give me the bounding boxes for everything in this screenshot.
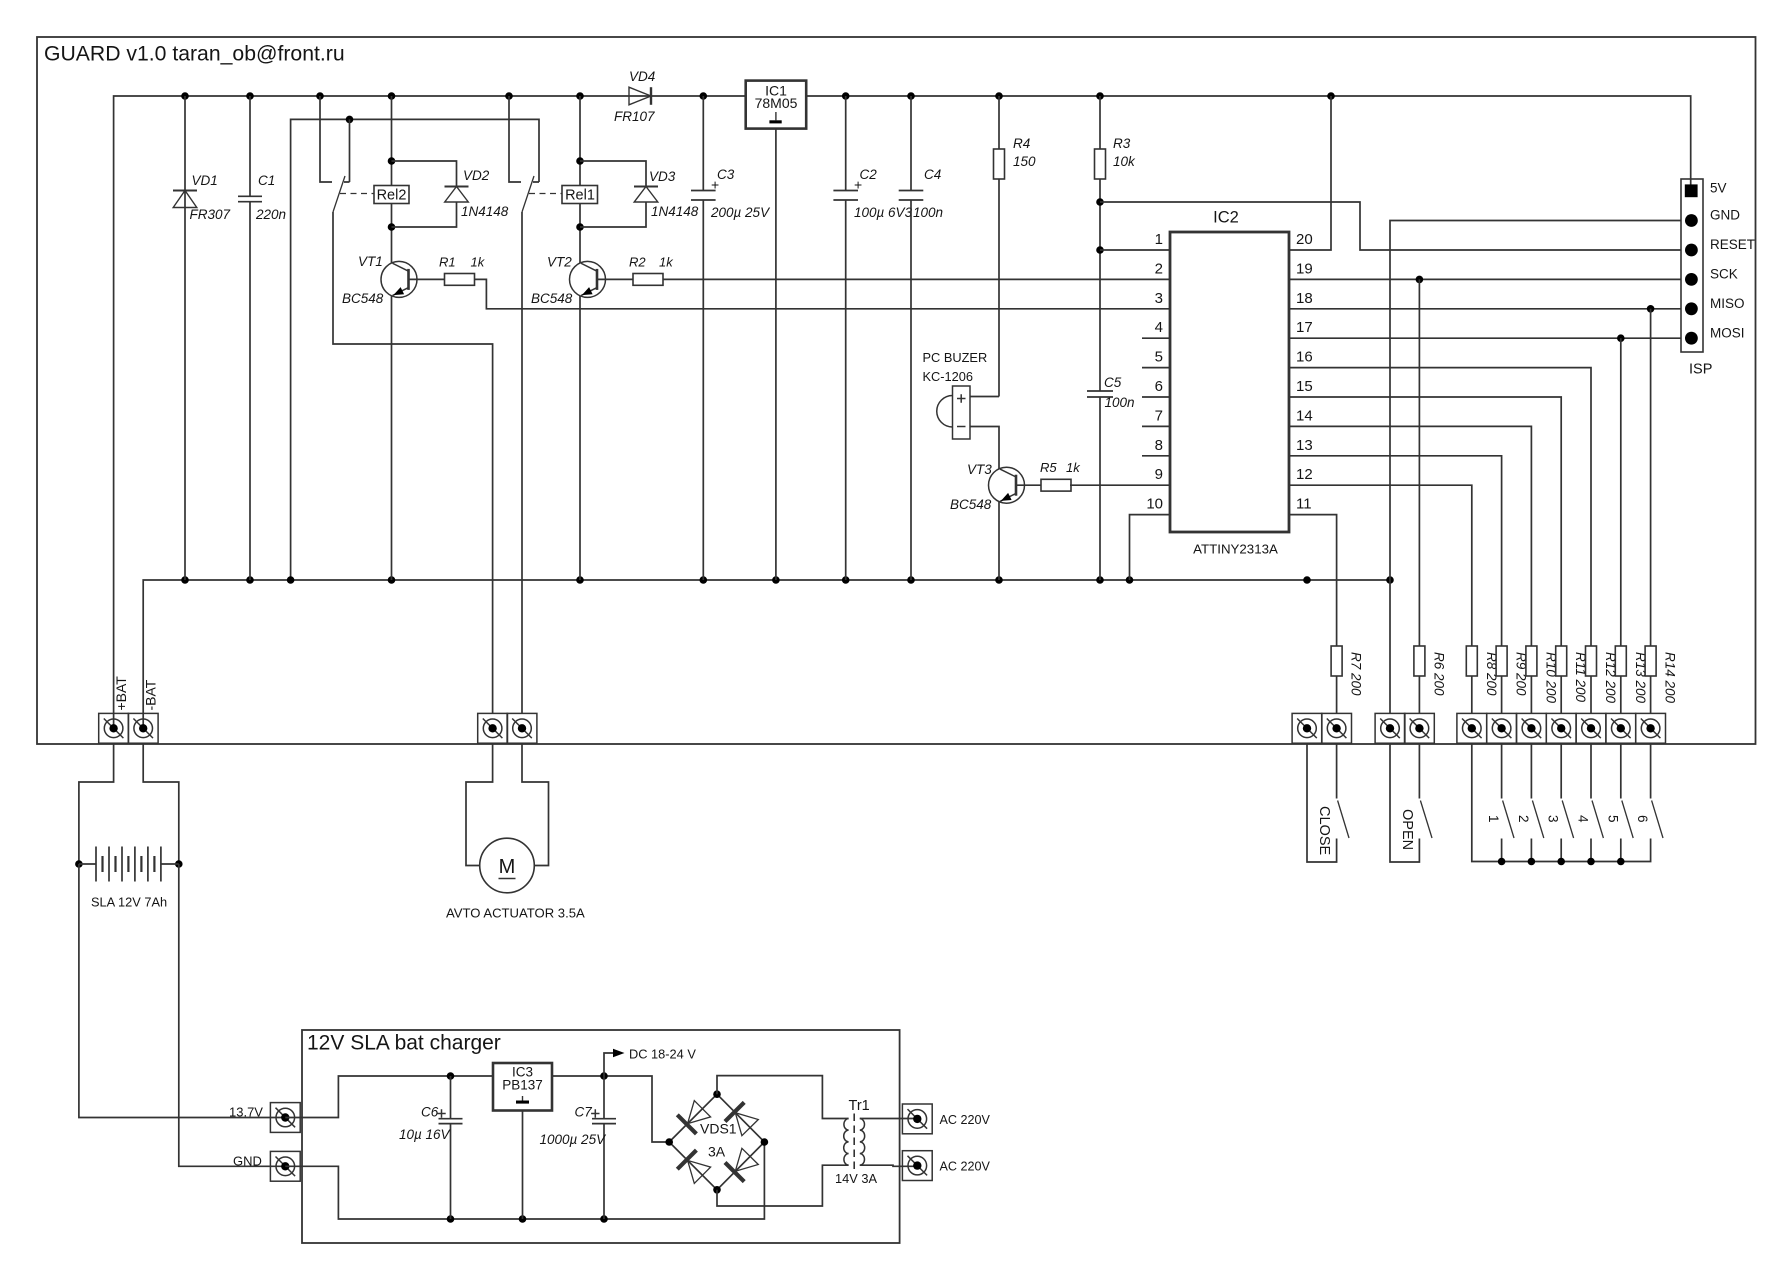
terminal x=1471.8: [1457, 713, 1487, 743]
switch 3: [1560, 743, 1562, 798]
svg-text:13.7V: 13.7V: [229, 1105, 263, 1120]
svg-text:12: 12: [1296, 466, 1313, 483]
wire +BAT to battery: [79, 743, 114, 864]
terminal x=1336.6: [1322, 713, 1352, 743]
capacitor C4: [910, 96, 912, 191]
node IC3 bottom: [519, 1215, 527, 1223]
wire buzzer minus to VT3: [970, 427, 999, 469]
wire R5 to IC2 pin9: [1070, 484, 1170, 486]
node ground rail x=580: [576, 576, 584, 584]
svg-text:C5: C5: [1104, 375, 1122, 390]
svg-text:VT2: VT2: [547, 255, 572, 270]
svg-text:10: 10: [1146, 496, 1163, 513]
wire VT2 emitter: [579, 296, 581, 580]
node Rel1 top: [576, 157, 584, 165]
wire RESET to ISP: [1100, 202, 1681, 250]
node top rail x=580: [576, 92, 584, 100]
svg-text:AC 220V: AC 220V: [940, 1113, 991, 1127]
terminal x=522: [507, 713, 537, 743]
bridge diode top-left: [677, 1115, 696, 1134]
capacitor C1: [249, 96, 251, 196]
diode VD4: [629, 87, 651, 105]
wire VT3 emitter: [998, 502, 1000, 580]
svg-text:C4: C4: [924, 167, 941, 182]
svg-text:GUARD v1.0 taran_ob@front.ru: GUARD v1.0 taran_ob@front.ru: [44, 43, 345, 66]
svg-text:1k: 1k: [659, 255, 674, 270]
node bridge bottom: [713, 1186, 721, 1194]
wire inner +12V rail: [291, 119, 539, 580]
svg-text:100n: 100n: [913, 205, 943, 220]
svg-text:R4: R4: [1013, 136, 1030, 151]
regulator IC3 PB137: [493, 1063, 552, 1111]
wire pin 11 to R7: [1289, 515, 1337, 646]
node top rail x=185: [181, 92, 189, 100]
wire ISP GND: [1390, 221, 1681, 714]
svg-text:VD3: VD3: [649, 169, 676, 184]
wire to IC2 pin1: [1100, 249, 1170, 251]
terminal AC2: [902, 1151, 932, 1181]
node ground rail x=290.6: [287, 576, 295, 584]
node top rail x=999: [995, 92, 1003, 100]
svg-text:BC548: BC548: [950, 497, 992, 512]
node pin1: [1096, 246, 1104, 254]
resistor R6: [1418, 279, 1420, 646]
wire pin 13 to R9: [1289, 456, 1502, 646]
svg-text:1: 1: [1486, 815, 1501, 823]
node battery -: [175, 860, 183, 868]
wire bridge AC bottom: [717, 1165, 849, 1206]
switch 5: [1620, 743, 1622, 798]
wire pin 6 stub: [1142, 396, 1170, 398]
node ground rail x=185: [181, 576, 189, 584]
svg-text:3A: 3A: [708, 1144, 726, 1160]
transistor VT3: [989, 467, 1025, 503]
svg-text:7: 7: [1155, 407, 1163, 424]
resistor R5: [1016, 484, 1041, 486]
resistor R12: [1586, 646, 1597, 676]
svg-text:VT1: VT1: [358, 254, 383, 269]
node R3/reset: [1096, 198, 1104, 206]
terminal x=1419.4: [1405, 713, 1435, 743]
switch OPEN: [1390, 743, 1419, 862]
svg-text:12V SLA bat charger: 12V SLA bat charger: [307, 1032, 501, 1055]
resistor R2: [597, 278, 633, 280]
svg-text:RESET: RESET: [1710, 237, 1755, 252]
wire pin 5 stub: [1142, 367, 1170, 369]
svg-text:5: 5: [1605, 815, 1620, 823]
switch 2: [1530, 743, 1532, 798]
resistor R8: [1466, 646, 1477, 676]
svg-text:C1: C1: [258, 173, 275, 188]
svg-text:14V 3A: 14V 3A: [835, 1171, 877, 1186]
node ground rail x=1307: [1303, 576, 1311, 584]
resistor R14: [1650, 309, 1652, 646]
terminal GND: [270, 1151, 300, 1181]
switch 4: [1590, 743, 1592, 798]
terminal x=1501.6: [1487, 713, 1517, 743]
node ground rail x=775.9: [772, 576, 780, 584]
wire pin 16 to R12: [1289, 368, 1591, 646]
node top rail x=845.7: [842, 92, 850, 100]
wire primary to AC2: [860, 1165, 918, 1166]
terminal x=113.6: [99, 713, 129, 743]
wire VT1 emitter: [391, 296, 393, 580]
svg-text:R7 200: R7 200: [1349, 652, 1364, 696]
resistor R9: [1496, 646, 1507, 676]
svg-text:100µ 6V3: 100µ 6V3: [854, 205, 913, 220]
node C7 bottom: [600, 1215, 608, 1223]
wire battery + to charger: [79, 864, 285, 1118]
svg-text:20: 20: [1296, 231, 1313, 248]
wire IC3 ground: [522, 1111, 524, 1220]
wire pin 17 / MOSI: [1289, 337, 1681, 339]
svg-text:10µ 16V: 10µ 16V: [399, 1127, 452, 1142]
node C6 bottom: [447, 1215, 455, 1223]
terminal AC1: [902, 1104, 932, 1134]
svg-text:1N4148: 1N4148: [461, 204, 509, 219]
node top rail x=320: [316, 92, 324, 100]
svg-text:1k: 1k: [1066, 460, 1081, 475]
capacitor C5: [1087, 390, 1113, 392]
node Rel1 bottom: [576, 223, 584, 231]
regulator IC1 78M05: [746, 81, 807, 129]
switch CLOSE: [1307, 743, 1337, 862]
svg-text:2: 2: [1155, 260, 1163, 277]
wire pin 7 stub: [1142, 425, 1170, 427]
node ground rail x=250: [246, 576, 254, 584]
wire +12V top rail: [114, 96, 1691, 728]
svg-text:11: 11: [1296, 496, 1312, 513]
wire pin 15 to R11: [1289, 397, 1561, 646]
switch 6: [1650, 743, 1652, 798]
svg-text:C6: C6: [421, 1104, 439, 1119]
node top rail x=250: [246, 92, 254, 100]
svg-text:Rel2: Rel2: [377, 188, 407, 204]
wire switch common bus: [1472, 743, 1651, 861]
svg-text:CLOSE: CLOSE: [1316, 806, 1332, 855]
node SCK branch: [1416, 276, 1424, 284]
svg-text:15: 15: [1296, 378, 1313, 395]
wire pin 8 stub: [1142, 455, 1170, 457]
diode VD3: [580, 161, 646, 187]
svg-text:GND: GND: [1710, 208, 1740, 223]
wire pin 19 / SCK: [1289, 278, 1681, 280]
node top rail x=509: [505, 92, 513, 100]
dashed link K2 to Rel2 coil: [340, 193, 374, 195]
wire IC1 ground: [775, 129, 777, 580]
svg-text:10k: 10k: [1113, 154, 1136, 169]
terminal x=1390: [1375, 713, 1405, 743]
transformer Tr1 secondary winding: [844, 1119, 849, 1166]
wire pin 10 to ground: [1130, 515, 1171, 580]
resistor R10: [1526, 646, 1537, 676]
node ground rail x=1390: [1386, 576, 1394, 584]
svg-text:GND: GND: [233, 1154, 262, 1169]
svg-text:Tr1: Tr1: [849, 1098, 870, 1114]
svg-text:+BAT: +BAT: [113, 676, 129, 711]
node top rail x=391.5: [388, 92, 396, 100]
node top rail x=703.3: [700, 92, 708, 100]
svg-text:Rel1: Rel1: [565, 188, 595, 204]
relay coil Rel2: [391, 96, 393, 186]
wire pin 20 to rail: [1289, 96, 1331, 250]
bridge rectifier VDS1 diamond: [669, 1094, 764, 1190]
svg-text:VT3: VT3: [967, 462, 992, 477]
node top rail x=1100: [1096, 92, 1104, 100]
wire buzzer plus: [970, 396, 999, 398]
node bridge right: [761, 1138, 769, 1146]
resistor R7: [1331, 646, 1342, 676]
svg-text:MOSI: MOSI: [1710, 326, 1745, 341]
capacitor C6: [450, 1076, 452, 1119]
terminal x=1561.2: [1546, 713, 1576, 743]
node ground rail x=1100: [1096, 576, 1104, 584]
terminal x=1591: [1576, 713, 1606, 743]
svg-text:R1: R1: [439, 255, 456, 270]
bridge diode top-right: [725, 1102, 744, 1121]
terminal x=1650.6: [1636, 713, 1666, 743]
relay contact K1 blade: [522, 176, 534, 212]
svg-text:C3: C3: [717, 167, 735, 182]
wire -BAT to battery: [143, 743, 179, 864]
svg-text:150: 150: [1013, 154, 1036, 169]
svg-text:FR107: FR107: [614, 109, 655, 124]
svg-text:3: 3: [1546, 815, 1561, 823]
terminal x=492.6: [478, 713, 508, 743]
svg-text:IC2: IC2: [1213, 209, 1239, 227]
svg-text:200µ 25V: 200µ 25V: [710, 205, 771, 220]
svg-text:6: 6: [1635, 815, 1650, 823]
capacitor C2: [845, 96, 847, 191]
capacitor C7: [603, 1076, 605, 1119]
svg-text:PC BUZER: PC BUZER: [923, 350, 988, 365]
svg-text:5V: 5V: [1710, 181, 1727, 196]
resistor R3: [1099, 96, 1101, 149]
svg-text:FR307: FR307: [190, 207, 231, 222]
wire actuator right: [522, 743, 549, 865]
svg-text:2: 2: [1516, 815, 1531, 823]
node ground rail x=391.5: [388, 576, 396, 584]
svg-text:MISO: MISO: [1710, 296, 1745, 311]
node battery +: [75, 860, 83, 868]
svg-text:OPEN: OPEN: [1399, 809, 1415, 850]
resistor R4: [998, 96, 1000, 149]
svg-text:R14 200: R14 200: [1663, 652, 1678, 704]
transformer Tr1 primary winding: [860, 1119, 865, 1166]
svg-text:R2: R2: [629, 255, 646, 270]
buzzer BZ1: [953, 386, 971, 439]
transistor VT2: [570, 261, 606, 297]
battery GB1 SLA: [79, 863, 96, 865]
resistor R13: [1620, 338, 1622, 646]
node MISO branch: [1647, 305, 1655, 313]
svg-text:5: 5: [1155, 349, 1163, 366]
svg-text:16: 16: [1296, 349, 1313, 366]
svg-text:PB137: PB137: [502, 1078, 543, 1093]
relay contact K2 fixed terminals: [320, 96, 332, 182]
svg-text:VD2: VD2: [463, 168, 490, 183]
arrow DC output: [604, 1053, 613, 1076]
resistor R1: [409, 278, 445, 280]
wire actuator left: [466, 743, 493, 865]
svg-text:ATTINY2313A: ATTINY2313A: [1193, 542, 1278, 557]
svg-text:ISP: ISP: [1689, 362, 1712, 378]
node ground rail x=845.7: [842, 576, 850, 584]
relay contact K1 fixed terminals: [509, 96, 521, 182]
svg-text:BC548: BC548: [531, 291, 573, 306]
svg-text:220n: 220n: [255, 207, 286, 222]
terminal x=1620.8: [1606, 713, 1636, 743]
svg-text:1N4148: 1N4148: [651, 204, 699, 219]
svg-text:17: 17: [1296, 319, 1313, 336]
node bridge top: [713, 1090, 721, 1098]
wire relay K2 common to actuator: [333, 212, 493, 713]
wire pin 12 to R8: [1289, 485, 1472, 646]
terminal x=143.2: [128, 713, 158, 743]
svg-text:C7: C7: [575, 1104, 593, 1119]
svg-text:14: 14: [1296, 407, 1313, 424]
dashed link K1 to Rel1 coil: [529, 193, 562, 195]
motor M1 actuator: [480, 838, 535, 893]
svg-text:9: 9: [1155, 466, 1163, 483]
svg-text:4: 4: [1155, 319, 1163, 336]
svg-text:AVTO ACTUATOR 3.5A: AVTO ACTUATOR 3.5A: [446, 906, 585, 921]
wire R2 to IC2 pin2: [663, 278, 1170, 280]
svg-text:18: 18: [1296, 290, 1313, 307]
svg-text:6: 6: [1155, 378, 1163, 395]
transformer Tr1 core: [853, 1114, 855, 1170]
svg-text:BC548: BC548: [342, 291, 384, 306]
svg-text:DC 18-24 V: DC 18-24 V: [629, 1047, 696, 1062]
relay coil Rel1: [579, 96, 581, 186]
wire ground rail: [143, 580, 1390, 728]
node top rail x=1331: [1327, 92, 1335, 100]
svg-text:VDS1: VDS1: [700, 1121, 737, 1137]
node Rel2 top: [388, 157, 396, 165]
diode VD2: [392, 161, 457, 187]
resistor R11: [1556, 646, 1567, 676]
svg-text:78M05: 78M05: [755, 95, 798, 111]
node bridge left: [665, 1138, 673, 1146]
svg-text:1k: 1k: [471, 255, 486, 270]
node ground rail x=911: [907, 576, 915, 584]
wire charger gnd rail: [285, 1142, 764, 1219]
node MOSI branch: [1617, 334, 1625, 342]
node C6 top: [447, 1072, 455, 1080]
main board outline: [37, 37, 1756, 744]
svg-text:R6 200: R6 200: [1431, 652, 1446, 696]
wire battery - to charger gnd: [179, 864, 285, 1166]
svg-text:SLA 12V 7Ah: SLA 12V 7Ah: [91, 895, 167, 910]
wire bridge AC top: [717, 1076, 849, 1119]
svg-text:4: 4: [1576, 815, 1591, 823]
relay contact K2 blade: [333, 176, 345, 212]
svg-text:8: 8: [1155, 437, 1163, 454]
node C7 top: [600, 1072, 608, 1080]
node ground rail x=1129.5: [1126, 576, 1134, 584]
bridge diode bottom-left: [677, 1150, 696, 1169]
svg-text:C2: C2: [860, 167, 878, 182]
svg-text:KC-1206: KC-1206: [923, 369, 974, 384]
node ground rail x=703.3: [700, 576, 708, 584]
terminal x=1307: [1292, 713, 1322, 743]
node ground rail x=999: [995, 576, 1003, 584]
terminal x=1531.4: [1517, 713, 1547, 743]
wire pin 4 stub: [1142, 337, 1170, 339]
wire primary to AC1: [860, 1118, 918, 1120]
node Rel2 bottom: [388, 223, 396, 231]
svg-text:100n: 100n: [1105, 395, 1135, 410]
transistor VT1: [381, 261, 417, 297]
svg-text:SCK: SCK: [1710, 267, 1738, 282]
svg-text:M: M: [499, 856, 516, 878]
microcontroller IC2 ATTINY2313A: [1170, 232, 1289, 532]
svg-text:VD1: VD1: [192, 173, 218, 188]
switch 1: [1501, 743, 1503, 798]
connector ISP: [1681, 179, 1703, 352]
svg-text:3: 3: [1155, 290, 1163, 307]
svg-text:19: 19: [1296, 260, 1313, 277]
terminal 13.7V: [270, 1103, 300, 1133]
svg-text:VD4: VD4: [629, 69, 655, 84]
wire pin 18 / MISO: [1289, 308, 1681, 310]
capacitor C3: [702, 96, 704, 191]
svg-text:1: 1: [1155, 231, 1163, 248]
wire R1 to IC2 pin3: [475, 279, 1171, 308]
node top rail x=911: [907, 92, 915, 100]
diode VD1: [184, 96, 186, 580]
svg-text:13: 13: [1296, 437, 1313, 454]
svg-text:R5: R5: [1040, 460, 1057, 475]
wire pin 14 to R10: [1289, 426, 1531, 646]
wire 13.7V rail: [285, 1076, 669, 1142]
svg-text:R3: R3: [1113, 136, 1131, 151]
bridge diode bottom-right: [725, 1163, 744, 1182]
svg-text:-BAT: -BAT: [142, 679, 158, 710]
svg-text:1000µ 25V: 1000µ 25V: [540, 1132, 608, 1147]
svg-text:AC 220V: AC 220V: [940, 1160, 991, 1174]
wire relay K1 common to actuator: [521, 212, 523, 713]
charger board outline: [302, 1030, 900, 1243]
node inner rail: [346, 116, 354, 124]
